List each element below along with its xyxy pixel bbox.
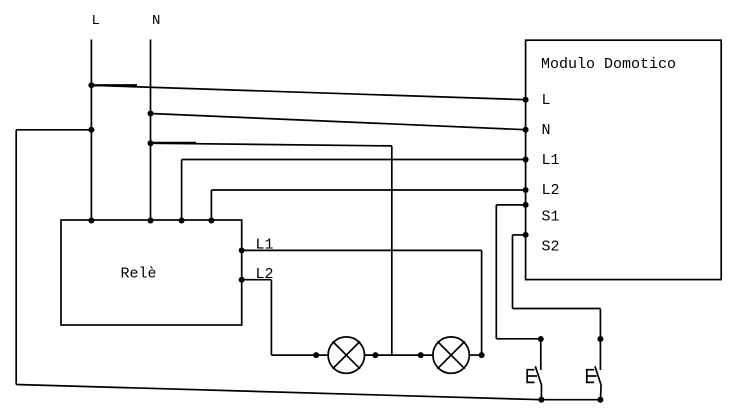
junction dot lamp1 right [372, 352, 378, 358]
module pin L2 label [542, 182, 560, 199]
wire lamp row right segment [469, 354, 481, 356]
wire lamp mid vertical [391, 146, 393, 355]
svg-text:L1: L1 [542, 152, 560, 169]
junction dot switch2 top [597, 336, 603, 342]
wire relay L2 vertical down [270, 280, 272, 355]
module pin L1 dot [523, 157, 529, 163]
svg-text:S2: S2 [542, 239, 560, 256]
junction dot N-lamp [148, 140, 154, 146]
junction dot lamp2 right [479, 352, 485, 358]
junction dot switch2 bottom [597, 397, 603, 403]
wire L to outer loop [16, 129, 91, 131]
module pin L1 label [542, 152, 560, 169]
junction dot relay top L [88, 218, 94, 224]
lamp E2 [433, 337, 469, 373]
svg-text:Modulo Domotico: Modulo Domotico [541, 56, 676, 73]
wire N stub to lamps [151, 142, 197, 144]
wire S1 vertical [495, 205, 497, 339]
module pin S1 label [542, 209, 560, 226]
module title [541, 56, 676, 73]
wire relay L1 to lamp2 horizontal [242, 249, 482, 251]
junction dot N-diagonal [148, 111, 154, 117]
junction dot lamp1 left [313, 352, 319, 358]
module pin N label [542, 122, 551, 139]
wire S1 to switch1 [496, 338, 541, 340]
svg-text:Relè: Relè [121, 266, 157, 283]
wire N vertical feed [150, 40, 152, 221]
junction dot switch1 bottom [538, 397, 544, 403]
wire S2 down to switch2 [599, 309, 601, 371]
svg-text:S1: S1 [542, 209, 560, 226]
relay box [61, 220, 242, 325]
junction dot switch1 top [538, 336, 544, 342]
relay label [121, 266, 157, 283]
module pin S2 label [542, 239, 560, 256]
junction dot relay top N [148, 218, 154, 224]
module pin N dot [523, 127, 529, 133]
wire L vertical feed [90, 40, 92, 221]
module pin L dot [523, 97, 529, 103]
junction dot lamp2 left [418, 352, 424, 358]
junction dot L-outer [88, 127, 94, 133]
wire relay L2 horizontal stub [242, 279, 272, 281]
wire S1 stub [496, 204, 525, 206]
relay pin L2 label [256, 266, 274, 283]
svg-text:N: N [152, 13, 160, 29]
wire module L2 horizontal [211, 189, 525, 191]
module pin S2 dot [523, 232, 529, 238]
wire S2 stub [513, 234, 526, 236]
node L label [92, 13, 100, 29]
pushbutton S1 [527, 339, 541, 400]
wire bottom diagonal return [16, 385, 541, 400]
wire outer-left vertical [15, 130, 17, 385]
svg-text:L2: L2 [542, 182, 560, 199]
relay pin L2 dot [239, 277, 245, 283]
wire L diagonal to module pin L [91, 85, 525, 99]
wire S2 vertical [512, 235, 514, 309]
wire lamp row left segment [271, 354, 328, 356]
wire L stub to module [91, 84, 137, 86]
module pin L label [542, 92, 551, 109]
wire switch bottoms [541, 399, 600, 401]
relay pin L1 label [256, 237, 274, 254]
wire module L1 vertical to relay [181, 160, 183, 221]
junction dot L-diagonal [88, 82, 94, 88]
pushbutton S2 [587, 366, 601, 399]
svg-text:L: L [542, 92, 551, 109]
node N label [152, 13, 160, 29]
lamp E1 [328, 337, 364, 373]
module pin S1 dot [523, 202, 529, 208]
wire lamp row middle segment [365, 354, 433, 356]
junction dot relay top L2 [208, 218, 214, 224]
wire module L2 vertical to relay [210, 190, 212, 221]
junction dot relay top L1 [179, 218, 185, 224]
wire N diagonal to module pin N [151, 114, 526, 130]
wire N to lamp mid junction [151, 143, 392, 146]
module box [526, 40, 722, 279]
wire S2 horizontal [513, 308, 601, 310]
relay pin L1 dot [239, 247, 245, 253]
wire module L1 horizontal [182, 159, 526, 161]
wire relay L1 vertical down [481, 250, 483, 355]
module pin L2 dot [523, 187, 529, 193]
svg-text:N: N [542, 122, 551, 139]
svg-text:L: L [92, 13, 100, 29]
